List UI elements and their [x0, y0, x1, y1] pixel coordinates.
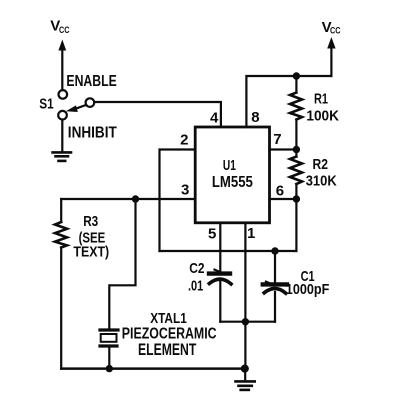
- ground (below S1): [53, 152, 71, 161]
- wire pin 7: [270, 148, 297, 150]
- wire R2 bottom to pin6 junction: [295, 184, 297, 199]
- junction R2/pin6: [293, 195, 300, 202]
- wire bottom rail: [61, 367, 244, 370]
- svg-text:XTAL1: XTAL1: [150, 310, 187, 327]
- wire R1 to pin7 junction: [295, 120, 297, 150]
- wire C2 bottom to gnd net: [219, 281, 221, 322]
- capacitor C2: [209, 270, 231, 284]
- svg-text:1000pF: 1000pF: [286, 281, 330, 298]
- svg-text:100K: 100K: [306, 108, 339, 125]
- wire to bottom ground: [244, 369, 246, 380]
- wire S1 wiper to pin 4: [94, 102, 221, 127]
- wire XTAL branch: [109, 199, 135, 328]
- svg-text:5: 5: [208, 225, 216, 242]
- S1 wiper arm arrow: [74, 105, 86, 109]
- junction bottom rail / pin1 / ground: [241, 365, 249, 373]
- svg-text:LM555: LM555: [212, 174, 253, 191]
- svg-text:310K: 310K: [306, 173, 337, 190]
- svg-text:TEXT): TEXT): [73, 244, 109, 261]
- junction R1/R2/pin7: [293, 146, 300, 153]
- crystal XTAL1 piezo element: [100, 330, 118, 346]
- resistor R3: [55, 222, 67, 248]
- svg-text:4: 4: [210, 110, 219, 127]
- wire S1 lower contact to ground: [61, 120, 63, 151]
- wire C1 bottom: [274, 292, 276, 322]
- S1 upper contact (ENABLE): [59, 90, 68, 99]
- junction pin3/XTAL branch: [132, 195, 139, 202]
- svg-text:CC: CC: [330, 25, 341, 36]
- resistor R1: [290, 93, 302, 120]
- wire left rail R3 to bottom rail: [60, 248, 62, 369]
- junction C2/pin1/C1 bottom: [242, 318, 249, 325]
- resistor R2: [290, 157, 302, 185]
- junction VCC/R1/pin8: [293, 72, 300, 79]
- svg-text:R2: R2: [313, 156, 329, 173]
- IC U1 LM555: [195, 127, 269, 223]
- svg-text:CC: CC: [59, 25, 70, 36]
- svg-text:8: 8: [251, 109, 259, 126]
- wire right column down to net rail: [295, 199, 297, 251]
- svg-text:.01: .01: [188, 278, 203, 295]
- junction XTAL1/bottom rail: [106, 365, 113, 372]
- capacitor C1: [263, 282, 287, 294]
- wire pin 1 to ground: [244, 223, 246, 369]
- switch S1: [58, 90, 94, 119]
- svg-text:1: 1: [247, 225, 255, 242]
- wire VCC junction to R1: [295, 76, 297, 93]
- S1 wiper pivot contact: [86, 98, 95, 107]
- svg-text:7: 7: [273, 131, 281, 148]
- wire XTAL1 to bottom rail: [108, 348, 110, 369]
- svg-text:C2: C2: [189, 260, 204, 277]
- svg-text:2: 2: [180, 132, 188, 149]
- S1 lower contact (INHIBIT): [58, 111, 67, 120]
- svg-text:3: 3: [181, 182, 189, 199]
- svg-text:U1: U1: [223, 158, 236, 174]
- svg-text:S1: S1: [39, 96, 53, 113]
- wire pin 8 to VCC rail: [246, 76, 331, 127]
- wire pin 3: [61, 198, 195, 200]
- svg-text:R3: R3: [83, 213, 98, 230]
- svg-text:R1: R1: [314, 90, 328, 107]
- wire pin 6: [270, 198, 297, 200]
- power symbol VCC left arrow: [58, 40, 66, 89]
- svg-text:6: 6: [276, 182, 284, 199]
- wire left rail to R3: [60, 199, 62, 222]
- wire net rail y=250.5: [160, 250, 297, 252]
- svg-text:ELEMENT: ELEMENT: [138, 341, 196, 359]
- VCC right label: [322, 19, 341, 36]
- VCC left label: [50, 18, 69, 36]
- power symbol VCC right arrow: [327, 37, 335, 76]
- ground (bottom): [236, 381, 255, 390]
- wire R2 top stub: [295, 150, 297, 157]
- wire C1 top: [274, 251, 276, 284]
- svg-text:INHIBIT: INHIBIT: [68, 124, 117, 141]
- junction C1 top on net rail: [271, 247, 278, 254]
- svg-text:ENABLE: ENABLE: [66, 73, 117, 90]
- wire pin 2: [160, 150, 196, 252]
- wire pin 5 to C2: [219, 223, 221, 272]
- wire gnd net horizontal: [220, 321, 275, 323]
